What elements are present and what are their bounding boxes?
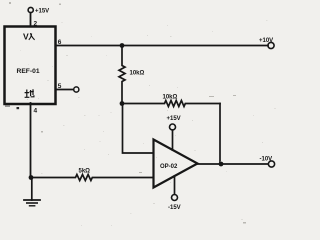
svg-text:+15V: +15V <box>167 116 181 122</box>
svg-text:2: 2 <box>34 21 38 28</box>
op-amp U2 OP-02 <box>154 140 198 188</box>
svg-text:-10V: -10V <box>260 157 273 163</box>
resistor R2 10kohm feedback horizontal <box>122 101 220 107</box>
terminal pin5 open circle <box>74 87 79 92</box>
svg-text:V: V <box>23 32 29 42</box>
node B junction dot (inverting input node) <box>120 101 125 106</box>
node A junction dot top of R1 <box>120 43 125 48</box>
ground <box>31 178 33 201</box>
wire op-amp V- <box>174 176 176 194</box>
terminal +10V <box>268 42 274 48</box>
svg-text:+15V: +15V <box>35 9 49 15</box>
svg-text:4: 4 <box>34 108 38 115</box>
svg-text:OP-02: OP-02 <box>160 164 178 170</box>
svg-text:5: 5 <box>58 83 62 90</box>
svg-text:6: 6 <box>58 39 62 46</box>
wire node B to inverting input <box>123 104 154 154</box>
node C output junction dot <box>219 162 224 167</box>
terminal -10V <box>268 161 274 167</box>
glyph "ru" (Chinese: in) <box>29 33 35 40</box>
wire output to -10V terminal <box>198 163 269 165</box>
terminal +15V (REF-01 supply) <box>28 7 33 12</box>
svg-text:+10V: +10V <box>259 38 273 44</box>
wire op-amp V+ <box>172 130 174 150</box>
wire pin4 ground lead <box>30 103 32 178</box>
terminal +15V (op-amp V+) <box>170 124 176 130</box>
wire pin2 to +15V terminal <box>30 13 32 26</box>
svg-text:5kΩ: 5kΩ <box>79 169 91 175</box>
resistor R1 10kohm vertical <box>119 46 125 104</box>
svg-text:10kΩ: 10kΩ <box>130 71 145 77</box>
wire feedback down to output node <box>219 104 221 165</box>
terminal -15V (op-amp V-) <box>172 195 178 201</box>
scan speckles (decorative) <box>5 106 19 110</box>
svg-text:REF-01: REF-01 <box>17 68 40 75</box>
svg-text:10kΩ: 10kΩ <box>163 95 178 101</box>
svg-text:-15V: -15V <box>168 205 181 211</box>
wire pin6 output to +10V terminal <box>56 45 268 47</box>
resistor R3 5kohm horizontal <box>31 175 154 181</box>
wire pin5 trim lead <box>56 89 73 91</box>
IC U1 REF-01 box <box>5 27 56 105</box>
glyph "di" (Chinese: ground) inside box <box>25 89 34 97</box>
node D ground junction dot <box>29 175 34 180</box>
